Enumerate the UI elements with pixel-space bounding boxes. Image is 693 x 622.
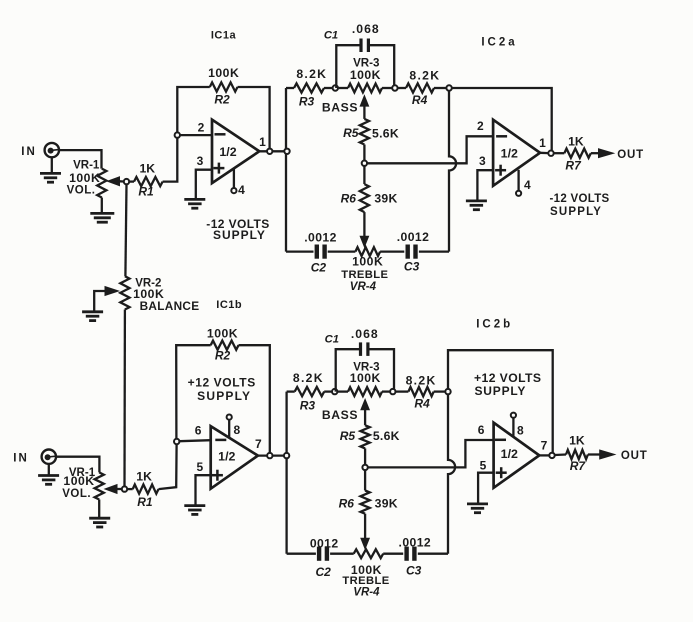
- wire IC2a pin 3 to ground: [477, 170, 493, 201]
- VR-1 wiper arrow (top): [108, 177, 124, 186]
- label R3 (bottom): [300, 399, 316, 413]
- label 1K R7 (top): [568, 134, 584, 148]
- wire IC1a output: [259, 150, 286, 152]
- wire IC2a output: [540, 152, 548, 155]
- resistor R6 (bottom) 39K: [361, 470, 370, 513]
- wire jack J1 to VR-1 top: [59, 150, 102, 169]
- label 100K VR-4 (bottom): [351, 563, 382, 577]
- svg-text:-12 VOLTS: -12 VOLTS: [550, 193, 610, 205]
- left rail tone network (top): [285, 88, 287, 252]
- op-amp IC2b: [494, 423, 540, 488]
- wire IC2b output: [539, 454, 549, 456]
- op-amp IC1a: [212, 120, 259, 184]
- resistor R7 (top) 1K: [554, 149, 591, 158]
- wire IC1b output: [258, 454, 286, 456]
- svg-text:8.2K: 8.2K: [409, 69, 440, 83]
- label 1/2 IC1b: [218, 450, 235, 464]
- resistor R2 (bottom) 100K: [211, 341, 239, 350]
- VR-3 wiper arrow BASS (top): [360, 96, 368, 119]
- label 1K R7 (bottom): [569, 433, 585, 447]
- label TREBLE (bottom): [342, 575, 389, 587]
- op-amp IC2a: [493, 120, 540, 186]
- svg-text:6: 6: [478, 423, 485, 437]
- resistor R7 (bottom) 1K: [555, 450, 588, 459]
- ground below VR-1 (top): [90, 213, 114, 222]
- svg-text:TREBLE: TREBLE: [342, 575, 389, 587]
- wire feedback right IC1a: [238, 87, 270, 148]
- svg-text:IC1a: IC1a: [211, 30, 237, 42]
- svg-text:1: 1: [259, 135, 266, 149]
- svg-text:C1: C1: [324, 29, 338, 41]
- svg-text:0012: 0012: [310, 536, 339, 550]
- label IC2a: [481, 37, 517, 49]
- label 100K VR-3 (top): [350, 68, 381, 82]
- ground IC1b pin 5: [184, 506, 205, 515]
- svg-text:SUPPLY: SUPPLY: [197, 389, 251, 403]
- svg-text:R4: R4: [414, 396, 430, 410]
- svg-text:VOL.: VOL.: [62, 488, 91, 500]
- label pin 5 IC2b: [480, 459, 487, 473]
- wire feedback right IC1b: [239, 345, 270, 453]
- pin 4 terminal IC2a: [516, 191, 521, 196]
- label C2 (top): [311, 261, 327, 275]
- label VR-3 (bottom): [353, 360, 380, 373]
- svg-text:5: 5: [196, 460, 203, 474]
- svg-text:BASS: BASS: [322, 408, 358, 422]
- label SUPPLY (right): [550, 206, 602, 218]
- pin 8 terminal IC1b: [227, 415, 232, 420]
- label BALANCE: [140, 299, 200, 313]
- label pin 1 IC1a: [259, 135, 266, 149]
- svg-text:1: 1: [539, 136, 546, 150]
- svg-text:4: 4: [524, 178, 531, 192]
- wire VR-2 down to R1 node (bottom): [123, 310, 126, 487]
- svg-text:39K: 39K: [374, 192, 397, 206]
- label pin 2 IC2a: [477, 119, 484, 133]
- wire IC2b pin 5 to ground: [478, 473, 494, 504]
- label pin 5 IC1b: [196, 460, 203, 474]
- svg-text:8.2K: 8.2K: [296, 67, 327, 81]
- svg-text:C2: C2: [316, 565, 332, 579]
- resistor R5 (bottom) 5.6K: [361, 425, 370, 464]
- label R2 (top): [214, 92, 230, 106]
- ground below VR-1 (bottom): [89, 518, 110, 527]
- label R6 (bottom): [339, 496, 355, 510]
- resistor R6 (top) 39K: [360, 166, 369, 212]
- svg-text:100K: 100K: [63, 474, 94, 488]
- svg-text:+12 VOLTS: +12 VOLTS: [474, 371, 541, 385]
- node R1/VR-1/VR-2 junction (top): [124, 179, 129, 184]
- plus sign IC2a: [495, 165, 506, 176]
- svg-text:C1: C1: [325, 334, 339, 346]
- wire feedback left IC1a: [177, 87, 210, 132]
- svg-text:C2: C2: [311, 261, 327, 275]
- svg-text:2: 2: [198, 121, 205, 135]
- svg-text:VR-1: VR-1: [73, 160, 100, 172]
- svg-text:BASS: BASS: [322, 101, 358, 115]
- svg-text:TREBLE: TREBLE: [341, 269, 388, 281]
- wire IC1a pin 3 to ground: [196, 170, 212, 200]
- label SUPPLY (bottom right): [475, 384, 527, 398]
- svg-text:IC2b: IC2b: [476, 318, 513, 330]
- label 100K VR-2: [133, 287, 164, 301]
- svg-text:6: 6: [195, 424, 202, 438]
- label 100K R2 (bottom): [207, 326, 238, 340]
- label .0012 C3 (bottom): [399, 535, 432, 549]
- wire jack J2 to VR-1 bottom ch: [56, 457, 99, 473]
- ground IC2a pin 3: [466, 201, 487, 210]
- label C3 (bottom): [406, 564, 422, 578]
- label IN (top): [21, 146, 37, 158]
- wire feedback IC2a top: [452, 88, 552, 150]
- label C2 (bottom): [316, 565, 332, 579]
- resistor R3 (bottom) 8.2K: [287, 387, 332, 396]
- pin 8 terminal IC2b: [511, 413, 516, 418]
- svg-text:.0012: .0012: [399, 535, 432, 549]
- capacitor C2 (bottom) 0012: [319, 547, 327, 561]
- label IN (bottom): [13, 452, 29, 464]
- svg-text:1/2: 1/2: [218, 450, 235, 464]
- svg-text:1K: 1K: [140, 161, 156, 175]
- resistor R4 (bottom) 8.2K: [396, 387, 445, 396]
- potentiometer VR-2 balance: [120, 276, 129, 309]
- resistor R1 (top) 1K: [129, 177, 162, 186]
- svg-text:OUT: OUT: [617, 149, 644, 161]
- minus sign IC1a: [215, 133, 226, 136]
- label TREBLE (top): [341, 269, 388, 281]
- wire feedback left IC1b: [176, 345, 211, 438]
- svg-text:IC1b: IC1b: [216, 299, 242, 311]
- potentiometer VR-3 (bottom bass): [338, 387, 390, 396]
- pin 4 terminal IC1a: [231, 188, 236, 193]
- node R4/right-rail junction (top): [446, 85, 451, 90]
- svg-text:100K: 100K: [350, 371, 381, 385]
- wire feedback IC2b top: [448, 350, 553, 452]
- svg-text:R5: R5: [343, 126, 359, 140]
- VR-2 wiper arrow: [94, 287, 118, 312]
- label 8.2K R4 (top): [409, 69, 440, 83]
- capacitor C2 (top) .0012: [317, 245, 325, 259]
- label pin 8 IC1b: [233, 423, 240, 437]
- wire VR-1 bottom ch to ground: [98, 500, 100, 518]
- label IC1b: [216, 299, 242, 311]
- label C1 (top): [324, 29, 338, 41]
- svg-text:1/2: 1/2: [219, 145, 236, 159]
- pin 4 stub IC1a: [233, 168, 235, 188]
- label 39K (top): [374, 192, 397, 206]
- op-amp IC1b: [211, 426, 258, 489]
- label C3 (top): [404, 259, 420, 273]
- label SUPPLY (bottom left): [197, 389, 251, 403]
- label VR-4 (bottom): [353, 587, 380, 599]
- label R4 (bottom): [414, 396, 430, 410]
- node IC1a inverting input junction: [175, 132, 180, 137]
- label 39K (bottom): [375, 497, 398, 511]
- ground IC1a pin 3: [184, 199, 205, 208]
- svg-text:R2: R2: [215, 349, 231, 363]
- svg-text:IN: IN: [13, 452, 29, 464]
- ground below jack J1: [40, 157, 61, 182]
- capacitor C3 (bottom) .0012: [407, 547, 415, 561]
- label pin 6 IC1b: [195, 424, 202, 438]
- svg-text:IC2a: IC2a: [481, 37, 517, 49]
- svg-text:R7: R7: [570, 459, 587, 473]
- svg-text:C3: C3: [404, 259, 420, 273]
- wire R1 to IC1b pin 6: [159, 444, 177, 489]
- label 8.2K R4 (bottom): [406, 373, 437, 387]
- potentiometer VR-4 (bottom treble): [354, 549, 384, 558]
- node R5/R6/IC2b junction (bottom): [362, 465, 367, 470]
- label pin 7 IC2b: [541, 438, 548, 452]
- label 100K VR-4 (top): [352, 255, 383, 269]
- wire node to IC1b pin 6: [180, 440, 211, 441]
- label pin 4 IC2a: [524, 178, 531, 192]
- svg-text:.0012: .0012: [304, 231, 337, 245]
- ground VR-2 wiper: [82, 312, 103, 321]
- svg-text:100K: 100K: [69, 171, 100, 185]
- svg-text:IN: IN: [21, 146, 37, 158]
- svg-text:VR-4: VR-4: [350, 281, 377, 293]
- label R3 (top): [299, 94, 315, 108]
- bottom rail tone network (bottom): [287, 553, 448, 555]
- wire VR-1 node down to VR-2: [125, 185, 126, 277]
- svg-text:1K: 1K: [568, 134, 584, 148]
- svg-text:BALANCE: BALANCE: [140, 299, 200, 313]
- svg-text:R7: R7: [565, 159, 582, 173]
- label IC2b: [476, 318, 513, 330]
- label R7 (top): [565, 159, 582, 173]
- label R1 (top): [138, 185, 154, 199]
- R6 arrow to VR-4 (top): [360, 212, 368, 247]
- label R2 (bottom): [215, 349, 231, 363]
- svg-text:R5: R5: [340, 429, 356, 443]
- label VR-1 (bottom): [69, 467, 96, 479]
- svg-text:39K: 39K: [375, 497, 398, 511]
- label R4 (top): [412, 93, 428, 107]
- label pin 7 IC1b: [255, 437, 262, 451]
- label 5.6K (bottom): [373, 429, 400, 443]
- svg-text:2: 2: [477, 119, 484, 133]
- svg-text:3: 3: [479, 154, 486, 168]
- label .068 (bottom): [351, 327, 379, 341]
- node IC1a output: [267, 149, 272, 154]
- svg-text:4: 4: [238, 183, 245, 197]
- right rail with hop (bottom): [448, 395, 455, 554]
- svg-text:5.6K: 5.6K: [372, 126, 399, 140]
- pin 8 stub IC1b: [228, 420, 230, 438]
- plus sign IC1a: [213, 163, 224, 174]
- wire mid-node to IC2b pin 6: [368, 440, 494, 467]
- svg-text:8.2K: 8.2K: [406, 373, 437, 387]
- label BASS (bottom): [322, 408, 358, 422]
- label SUPPLY (left): [213, 228, 266, 242]
- potentiometer VR-4 (top treble): [355, 247, 380, 256]
- label R5 (top): [343, 126, 359, 140]
- label pin 2 IC1a: [198, 121, 205, 135]
- label 1/2 IC1a: [219, 145, 236, 159]
- potentiometer VR-3 (top bass): [338, 84, 391, 93]
- wire mid-node to IC2a pin 2: [367, 136, 493, 163]
- svg-text:1/2: 1/2: [501, 146, 518, 160]
- VR-1 wiper arrow (bottom): [105, 485, 121, 494]
- label +12 VOLTS (left): [188, 376, 256, 390]
- label R7 (bottom): [570, 459, 587, 473]
- wire node to IC1a pin 2: [180, 134, 212, 136]
- label 1/2 IC2b: [501, 447, 518, 461]
- plus sign IC2b: [496, 467, 507, 478]
- resistor R5 (top) 5.6K: [360, 119, 369, 160]
- wire IC1b pin 5 to ground: [196, 475, 211, 505]
- svg-text:7: 7: [541, 438, 548, 452]
- ground below jack J2: [38, 464, 59, 484]
- minus sign IC2b: [495, 439, 506, 442]
- pin 4 stub IC2a: [517, 170, 519, 191]
- svg-text:R6: R6: [341, 191, 357, 205]
- label 100K VR-1 (top): [69, 171, 100, 185]
- svg-text:8: 8: [517, 423, 524, 437]
- svg-text:SUPPLY: SUPPLY: [475, 384, 527, 398]
- svg-text:5.6K: 5.6K: [373, 429, 400, 443]
- label -12 VOLTS (left): [206, 217, 269, 231]
- pin 8 stub IC2b: [512, 418, 514, 437]
- label VR-2: [135, 277, 161, 289]
- svg-text:R1: R1: [137, 495, 153, 509]
- label pin 6 IC2b: [478, 423, 485, 437]
- label pin 8 IC2b: [517, 423, 524, 437]
- svg-text:R1: R1: [138, 185, 154, 199]
- svg-text:R3: R3: [299, 94, 315, 108]
- svg-text:100K: 100K: [352, 255, 383, 269]
- svg-text:R3: R3: [300, 399, 316, 413]
- label .068 (top): [352, 22, 380, 36]
- VR-3 wiper arrow BASS (bottom): [361, 399, 369, 425]
- svg-text:OUT: OUT: [621, 450, 648, 462]
- label C1 (bottom): [325, 334, 339, 346]
- label 1/2 IC2a: [501, 146, 518, 160]
- node VR-3/R4/C1 junction (bottom): [390, 389, 395, 394]
- resistor R2 (top) 100K: [210, 82, 238, 91]
- svg-text:7: 7: [255, 437, 262, 451]
- node R3/VR-3/C1 junction (top): [333, 85, 338, 90]
- svg-text:1K: 1K: [136, 469, 152, 483]
- label OUT (top): [617, 149, 644, 161]
- node output/left-rail junction (bottom): [284, 453, 289, 458]
- label 0012 C2 (bottom): [310, 536, 339, 550]
- OUT arrow (top): [591, 149, 614, 158]
- right rail with hop (top): [449, 91, 456, 252]
- label pin 3 IC2a: [479, 154, 486, 168]
- svg-text:1/2: 1/2: [501, 447, 518, 461]
- label 100K VR-3 (bottom): [350, 371, 381, 385]
- resistor R3 (top) 8.2K: [286, 83, 333, 92]
- node R1/VR-1/VR-2 junction (bottom): [122, 486, 127, 491]
- svg-text:R6: R6: [339, 496, 355, 510]
- ground IC2b pin 5: [467, 504, 488, 513]
- label VOL. (top): [67, 185, 96, 197]
- node R4/right-rail junction (bottom): [445, 389, 450, 394]
- potentiometer VR-1 (top volume): [97, 169, 106, 198]
- label 1K R1 (top): [140, 161, 156, 175]
- input jack J1 (top IN): [45, 143, 59, 157]
- OUT arrow (bottom): [588, 450, 615, 459]
- svg-text:SUPPLY: SUPPLY: [213, 228, 266, 242]
- svg-text:100K: 100K: [207, 326, 238, 340]
- svg-text:1K: 1K: [569, 433, 585, 447]
- label +12 VOLTS (right): [474, 371, 541, 385]
- node R3/VR-3/C1 junction (bottom): [332, 389, 337, 394]
- capacitor C1 (top) branch: [336, 39, 394, 89]
- svg-text:VOL.: VOL.: [67, 185, 96, 197]
- label pin 4 IC1a: [238, 183, 245, 197]
- node VR-3/R4/C1 junction (top): [392, 85, 397, 90]
- label 100K R2 (top): [208, 66, 239, 80]
- label VR-4 (top): [350, 281, 377, 293]
- potentiometer VR-1 (bottom volume): [95, 472, 104, 499]
- resistor R4 (top) 8.2K: [398, 83, 446, 92]
- svg-text:5: 5: [480, 459, 487, 473]
- node R5/R6/IC2a junction (top): [362, 161, 367, 166]
- label R6 (top): [341, 191, 357, 205]
- minus sign IC1b: [215, 439, 226, 442]
- left rail tone network (bottom): [285, 392, 287, 554]
- label 8.2K R3 (bottom): [293, 371, 324, 385]
- node IC1b output: [267, 453, 272, 458]
- label pin 1 IC2a: [539, 136, 546, 150]
- svg-text:.068: .068: [352, 22, 380, 36]
- node IC2b output: [549, 453, 554, 458]
- input jack J2 (bottom IN): [42, 450, 56, 464]
- svg-text:8.2K: 8.2K: [293, 371, 324, 385]
- label pin 3 IC1a: [197, 154, 204, 168]
- svg-text:3: 3: [197, 154, 204, 168]
- svg-text:.068: .068: [351, 327, 379, 341]
- plus sign IC1b: [212, 470, 223, 481]
- svg-text:SUPPLY: SUPPLY: [550, 206, 602, 218]
- label .0012 C3 (top): [397, 230, 430, 244]
- node output/left-rail junction (top): [284, 149, 289, 154]
- svg-text:8: 8: [233, 423, 240, 437]
- label .0012 C2 (top): [304, 231, 337, 245]
- label VR-1 (top): [73, 160, 100, 172]
- wire R1 to IC1a pin 2: [163, 138, 178, 182]
- label VOL. (bottom): [62, 488, 91, 500]
- resistor R1 (bottom) 1K: [127, 485, 158, 494]
- svg-text:C3: C3: [406, 564, 422, 578]
- svg-text:R2: R2: [214, 92, 230, 106]
- node IC2a output: [548, 151, 553, 156]
- R6 arrow to VR-4 (bottom): [361, 514, 369, 549]
- label BASS (top): [322, 101, 358, 115]
- minus sign IC2a: [496, 135, 507, 138]
- capacitor C3 (top) .0012: [408, 245, 416, 259]
- label 1K R1 (bottom): [136, 469, 152, 483]
- label 5.6K (top): [372, 126, 399, 140]
- label R5 (bottom): [340, 429, 356, 443]
- svg-text:100K: 100K: [350, 68, 381, 82]
- capacitor C1 (bottom) branch: [336, 342, 394, 391]
- svg-text:.0012: .0012: [397, 230, 430, 244]
- label OUT (bottom): [621, 450, 648, 462]
- label VR-3 (top): [353, 57, 380, 70]
- label R1 (bottom): [137, 495, 153, 509]
- svg-text:+12 VOLTS: +12 VOLTS: [188, 376, 256, 390]
- svg-text:VR-4: VR-4: [353, 587, 380, 599]
- node IC1b inverting input junction: [174, 439, 179, 444]
- label 100K VR-1 (bottom): [63, 474, 94, 488]
- svg-text:100K: 100K: [208, 66, 239, 80]
- label -12 VOLTS (right): [550, 193, 610, 205]
- label IC1a: [211, 30, 237, 42]
